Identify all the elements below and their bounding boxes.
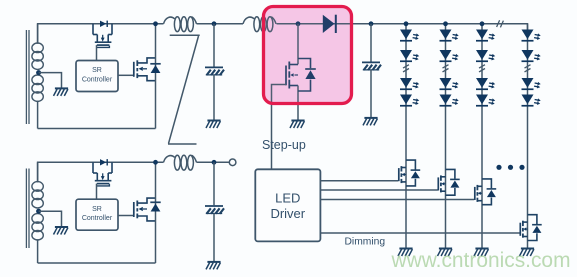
node junction rail / C2	[369, 21, 374, 26]
wire LED string 1	[405, 24, 407, 248]
wire Q3 drain	[297, 24, 299, 65]
wire C2 branch lower	[370, 70, 372, 117]
wire T2 to top rail	[37, 162, 39, 182]
transistor Q5	[134, 198, 156, 221]
node junction rail / C1	[212, 21, 217, 26]
capacitor C3	[205, 206, 224, 214]
transistor Q3 boost switch	[286, 62, 298, 89]
LED D43 string 4	[522, 78, 542, 90]
wire break LED string 4	[525, 65, 531, 72]
transistor Q8 dimming switch 3	[475, 185, 482, 202]
wire center tap T1	[39, 73, 62, 88]
node label Step-up	[262, 138, 306, 152]
node label Dimming	[345, 236, 386, 247]
wire T2 to bottom rail	[37, 239, 39, 263]
LED D21 string 2	[440, 30, 460, 42]
diode D1	[100, 21, 108, 27]
node junction rail 2 / Q5	[153, 160, 158, 165]
node junction rail 1 / Q2	[153, 21, 158, 26]
LED D11 string 1	[400, 30, 420, 42]
wire top rail converter 2	[38, 162, 164, 181]
capacitor C2	[362, 62, 381, 70]
LED D31 string 3	[476, 30, 496, 42]
wire break LED string 3	[479, 65, 485, 72]
wire center tap T2	[39, 211, 62, 226]
inductor L2	[243, 17, 276, 32]
LED D33 string 3	[476, 78, 496, 90]
ground LED string 2	[438, 249, 453, 257]
wire LED string 2	[445, 24, 447, 248]
diode D5	[100, 159, 108, 165]
transformer T2 secondary winding	[32, 182, 43, 240]
wire U3 Dimming to Q9 gate	[320, 232, 519, 234]
wire top rail segment 2	[197, 23, 244, 25]
wire T1 to bottom rail	[37, 101, 39, 129]
node junction rail / LED string 2	[443, 21, 448, 26]
transistor Q6 dimming switch 1	[399, 166, 406, 183]
wire freewheel bus 2	[155, 162, 157, 263]
node junction rail / LED string 1	[404, 21, 409, 26]
transformer T2 core	[26, 169, 29, 249]
svg-text:Step-up: Step-up	[262, 138, 306, 152]
diode body of dimming switch 3	[482, 179, 496, 205]
inductor L3	[164, 155, 197, 170]
LED D32 string 3	[476, 50, 496, 62]
node open output terminal	[229, 159, 236, 166]
wire freewheel bus 1	[155, 24, 157, 129]
wire LED string 4	[527, 24, 529, 248]
svg-text:Driver: Driver	[270, 206, 305, 221]
wire U3 to Q6 gate	[320, 180, 398, 182]
node Step-up highlight box	[264, 7, 352, 104]
wire break LED string 1	[403, 65, 409, 72]
LED D42 string 4	[522, 50, 542, 62]
node ellipsis more strings	[496, 165, 524, 170]
wire T1 to top rail	[37, 24, 39, 44]
diode D4 boost rectifier	[323, 15, 337, 33]
LED D12 string 1	[400, 50, 420, 62]
capacitor C1	[205, 67, 224, 75]
LED D14 string 1	[400, 95, 420, 107]
wire Q1 gate to U1	[96, 45, 98, 60]
transistor Q1 sync rectifier	[93, 24, 112, 48]
wire top rail converter 1	[38, 24, 164, 43]
node junction rail / LED string 3	[480, 21, 485, 26]
wire U1 to Q2 gate	[118, 74, 134, 76]
transformer T1 core	[26, 30, 29, 124]
svg-text:LED: LED	[275, 191, 300, 206]
transistor Q9 dimming switch 4	[520, 221, 527, 238]
node Step-up highlight box fill	[264, 7, 352, 104]
inductor L1	[164, 17, 197, 32]
wire U2 to Q5 gate	[118, 215, 134, 217]
diode body of dimming switch 4	[528, 215, 542, 241]
diode body of dimming switch 2	[446, 169, 460, 195]
wire top rail segment 3 to LED strings	[277, 24, 528, 30]
wire U3 to Q7 gate	[320, 189, 437, 191]
node junction boost switch	[296, 21, 301, 26]
ground LED string 3	[474, 249, 489, 257]
node junction rail 2 / C3	[212, 160, 217, 165]
svg-text:SR: SR	[92, 67, 102, 74]
node T1 center tap	[36, 70, 41, 75]
diode D3 body of Q3	[298, 59, 316, 92]
diode D6 body	[150, 202, 160, 211]
wire Q3 source	[297, 86, 299, 120]
wire bottom rail converter 1	[38, 128, 156, 130]
wire C1 branch upper	[213, 24, 215, 67]
ground center tap T2	[54, 227, 69, 235]
LED D13 string 1	[400, 78, 420, 90]
wire Q4 gate to U2	[96, 184, 98, 200]
wire C1 branch lower	[213, 75, 215, 120]
op-amp U2 SR Controller	[76, 199, 118, 230]
ground Q3 source	[290, 121, 305, 129]
transistor Q4 sync rectifier	[93, 162, 112, 186]
wire bottom rail converter 2	[38, 262, 156, 264]
transformer T1 secondary winding	[32, 43, 43, 101]
op-amp U3 LED Driver	[255, 169, 320, 241]
svg-text:Dimming: Dimming	[345, 236, 386, 247]
node T2 center tap	[36, 209, 41, 214]
wire C2 branch upper	[370, 24, 372, 62]
svg-text:www.cntronics.com: www.cntronics.com	[391, 249, 571, 272]
op-amp U1 SR Controller	[76, 61, 118, 92]
svg-text:SR: SR	[92, 206, 102, 213]
wire C3 branch upper	[213, 162, 215, 205]
node watermark	[391, 249, 571, 272]
LED D41 string 4	[522, 30, 542, 42]
ground LED string 1	[398, 249, 413, 257]
LED D23 string 2	[440, 78, 460, 90]
wire break LED string 2	[443, 65, 449, 72]
node repeat break symbol (ellipsis Z)	[168, 35, 200, 144]
ground LED string 4	[520, 249, 535, 257]
LED D24 string 2	[440, 95, 460, 107]
transistor Q7 dimming switch 2	[438, 175, 445, 192]
svg-text:Controller: Controller	[82, 76, 113, 83]
LED D22 string 2	[440, 50, 460, 62]
wire Q3 gate to LED Driver (Step-up control)	[272, 85, 287, 170]
wire rail 2 to output terminal	[197, 161, 230, 163]
LED D44 string 4	[522, 95, 542, 107]
ground C3	[206, 262, 221, 270]
wire U3 to Q8 gate	[320, 199, 474, 201]
LED D34 string 3	[476, 95, 496, 107]
wire C3 branch lower	[213, 213, 215, 261]
ground C1	[206, 121, 221, 129]
diode D2 body	[150, 64, 160, 73]
wire LED string 3	[481, 24, 483, 248]
diode body of dimming switch 1	[406, 160, 420, 186]
ground C2	[363, 118, 378, 126]
ground center tap T1	[54, 88, 69, 96]
svg-text:Controller: Controller	[82, 215, 113, 222]
wire break mark on rail	[497, 20, 504, 27]
transistor Q2	[134, 58, 156, 81]
